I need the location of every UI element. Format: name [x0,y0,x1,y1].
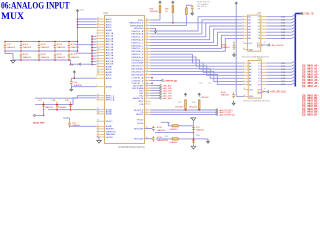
svg-text:REFSEL: REFSEL [106,129,115,131]
svg-text:TEST: TEST [138,101,144,103]
svg-text:SER/BYTE: SER/BYTE [132,98,143,100]
svg-text:PAR/SER: PAR/SER [106,133,116,136]
svg-text:19: 19 [264,42,266,44]
svg-text:7: 7 [97,40,98,42]
svg-text:10KLB10: 10KLB10 [201,97,209,99]
svg-text:6: 6 [243,74,244,76]
svg-text:19: 19 [264,89,266,91]
svg-text:REGCAP: REGCAP [134,127,144,130]
svg-text:19: 19 [97,73,99,75]
svg-text:10KLB10: 10KLB10 [150,11,159,13]
svg-text:+A00_RK(LB): +A00_RK(LB) [270,44,283,47]
svg-text:37: 37 [97,17,99,19]
svg-text:8: 8 [243,80,244,82]
svg-text:D02: D02 [282,23,285,25]
svg-text:9: 9 [243,83,244,85]
svg-text:1L0: 1L0 [199,83,202,85]
svg-text:GND: GND [248,49,253,51]
svg-text:D10: D10 [282,63,285,65]
svg-text:BC10: BC10 [57,54,63,56]
svg-text:D06: D06 [282,35,285,37]
svg-text:[3]: [3] [302,85,305,88]
svg-text:13: 13 [97,57,99,59]
svg-text:10ALB10: 10ALB10 [41,56,50,59]
svg-text:U08: U08 [103,11,108,15]
svg-text:12: 12 [97,54,99,56]
svg-text:24: 24 [146,56,148,58]
svg-text:2: 2 [243,15,244,17]
svg-text:10ALB10: 10ALB10 [157,129,166,132]
svg-text:BC06: BC06 [57,44,63,46]
svg-text:AVDD: AVDD [106,26,112,29]
svg-text:DB9/SDA_E: DB9/SDA_E [131,56,144,59]
svg-text:10: 10 [243,95,245,97]
svg-text:GND: GND [249,96,254,98]
svg-text:AVDD: AVDD [106,68,112,71]
svg-text:10KLB10: 10KLB10 [175,107,184,109]
svg-text:13: 13 [146,18,148,20]
svg-text:DB4/SCL_C: DB4/SCL_C [131,42,143,44]
svg-text:AGND: AGND [106,29,113,32]
svg-text:15: 15 [97,62,99,64]
svg-text:24: 24 [146,73,148,75]
svg-text:AIN_4A: AIN_4A [106,49,114,52]
svg-text:24: 24 [146,64,148,66]
svg-text:6: 6 [97,37,98,39]
svg-text:9: 9 [146,79,147,81]
svg-text:10: 10 [97,48,99,50]
svg-text:BC05: BC05 [41,44,47,46]
svg-text:12: 12 [146,21,148,23]
svg-text:AIN_3B: AIN_3B [106,46,114,49]
svg-text:STBY: STBY [138,20,144,22]
svg-text:BC06: BC06 [221,44,227,46]
svg-text:4: 4 [97,31,98,33]
svg-text:10ALB10: 10ALB10 [58,106,67,109]
svg-text:DB13/SDAG: DB13/SDAG [131,68,144,71]
svg-text:10ALB/DUM: 10ALB/DUM [157,139,168,142]
svg-text:AIN_1B: AIN_1B [106,35,114,38]
svg-text:SN74LVC541APW(TSSOP20): SN74LVC541APW(TSSOP20) [242,55,269,58]
svg-text:1L0: 1L0 [208,83,211,85]
svg-text:D03: D03 [282,26,285,28]
svg-text:5: 5 [243,25,244,27]
svg-text:7: 7 [243,31,244,33]
svg-text:AVDD: AVDD [106,18,112,21]
svg-text:U07: U07 [257,12,262,15]
svg-text:24: 24 [146,50,148,52]
svg-text:+A00_RK [3,8]: +A00_RK [3,8] [270,91,286,94]
svg-text:REFIN/REFR: REFIN/REFR [130,25,144,27]
svg-text:SN74LVC541APW(TSSOP20): SN74LVC541APW(TSSOP20) [243,99,270,102]
svg-text:VCC: VCC [248,43,253,45]
svg-text:10ALB10: 10ALB10 [71,56,80,59]
svg-text:MUX_B7 -: MUX_B7 - [308,113,320,116]
svg-text:5: 5 [97,34,98,36]
svg-text:D16: D16 [282,81,285,83]
svg-text:MUX_A7 -: MUX_A7 - [308,85,320,88]
svg-text:D13: D13 [282,72,285,74]
svg-text:17: 17 [97,68,99,70]
svg-text:11: 11 [97,51,99,53]
svg-text:3: 3 [243,65,244,67]
svg-text:42: 42 [97,98,99,100]
svg-text:DB10/SCLF: DB10/SCLF [132,60,144,62]
svg-text:BC04: BC04 [23,44,29,46]
svg-text:AIN_6A: AIN_6A [106,60,114,63]
svg-text:MUX: MUX [1,11,24,22]
svg-text:24: 24 [146,32,148,34]
svg-text:34: 34 [97,130,99,132]
svg-text:U09: U09 [257,58,262,61]
svg-text:AGND: AGND [106,65,113,68]
svg-text:+5LA: +5LA [69,63,75,66]
svg-text:DB15/SDAH: DB15/SDAH [131,73,144,76]
svg-text:DB12/SCLG: DB12/SCLG [131,66,143,68]
svg-text:AIN_5A: AIN_5A [106,54,114,57]
svg-text:AVDD: AVDD [106,23,112,26]
svg-text:10ALB10: 10ALB10 [71,46,80,49]
svg-text:DB6/SCL_D: DB6/SCL_D [131,48,143,50]
svg-text:24: 24 [146,47,148,49]
svg-text:DB7/SDA_D: DB7/SDA_D [131,50,144,53]
svg-text:REFIO: REFIO [106,121,113,123]
svg-text:+VDB_YB: +VDB_YB [303,14,314,16]
svg-text:D07: D07 [282,38,285,40]
svg-text:D15: D15 [282,78,285,80]
svg-text:6: 6 [243,28,244,30]
svg-text:D/B: D/B [140,104,144,106]
svg-text:5: 5 [243,71,244,73]
svg-text:4: 4 [243,68,244,70]
svg-text:10KLB10: 10KLB10 [189,107,198,109]
svg-text:D01: D01 [282,20,285,22]
svg-text:24: 24 [146,44,148,46]
svg-text:+A00_RESET [4]: +A00_RESET [4] [219,114,235,117]
svg-text:24: 24 [146,29,148,31]
svg-text:REFGND: REFGND [134,28,144,30]
svg-text:AVDD: AVDD [106,21,112,24]
svg-text:10ALB10: 10ALB10 [169,141,178,144]
svg-text:HVDD: HVDD [137,120,144,122]
svg-text:24: 24 [146,67,148,69]
svg-text:38: 38 [97,20,99,22]
svg-text:8: 8 [97,43,98,45]
svg-text:24: 24 [146,58,148,60]
svg-text:47: 47 [146,97,148,99]
svg-text:RESET: RESET [136,114,144,116]
svg-text:DB0/SCL_A: DB0/SCL_A [132,30,144,33]
svg-text:10ALB10: 10ALB10 [57,46,66,49]
svg-text:BC09: BC09 [41,54,47,56]
svg-text:+A00_SER: +A00_SER [162,97,172,100]
svg-text:20: 20 [243,88,245,90]
svg-text:BC08: BC08 [23,54,29,56]
svg-text:24: 24 [146,53,148,55]
svg-text:35: 35 [97,133,99,135]
svg-text:6: 6 [146,113,147,115]
svg-text:AGND: AGND [106,125,113,128]
svg-text:AIN_2A: AIN_2A [106,37,114,40]
svg-text:HVSS: HVSS [137,123,143,125]
svg-text:24: 24 [146,61,148,63]
svg-text:24: 24 [146,38,148,40]
svg-text:11: 11 [146,24,148,26]
svg-text:BC96: BC96 [221,92,227,94]
svg-text:REFC_A: REFC_A [106,99,115,102]
svg-text:VCC: VCC [249,89,254,91]
svg-text:4: 4 [146,102,147,104]
svg-text:46: 46 [97,120,99,122]
svg-text:10ALB10: 10ALB10 [7,46,16,49]
svg-text:4: 4 [243,21,244,23]
svg-text:R62: R62 [165,136,168,138]
svg-text:ADS8588SIPM(LQFP64): ADS8588SIPM(LQFP64) [118,146,145,149]
svg-text:DB11/SDAF: DB11/SDAF [132,62,144,65]
svg-text:10ALB10: 10ALB10 [41,46,50,49]
svg-text:WR/BYTE: WR/BYTE [106,131,117,133]
svg-text:10ALB10: 10ALB10 [23,56,32,59]
svg-text:D12: D12 [282,69,285,71]
svg-text:20: 20 [243,42,245,44]
svg-text:14: 14 [97,59,99,61]
svg-text:9: 9 [97,45,98,47]
svg-text:CONVST_B: CONVST_B [132,80,144,82]
svg-text:D00: D00 [282,16,285,18]
svg-text:39: 39 [97,23,99,25]
svg-text:10ALB10: 10ALB10 [221,94,230,97]
svg-text:CONVST_A: CONVST_A [132,77,144,80]
svg-text:AVDD: AVDD [106,77,112,80]
svg-text:[3]: [3] [302,113,305,116]
svg-text:AIN_2B: AIN_2B [106,40,114,43]
svg-text:AVDD: AVDD [106,74,112,77]
svg-text:9: 9 [243,37,244,39]
svg-text:AIN_3A: AIN_3A [106,43,114,46]
svg-text:10ALB10: 10ALB10 [45,106,54,109]
svg-text:40: 40 [97,26,99,28]
svg-text:AIN_6B: AIN_6B [106,63,114,66]
svg-text:D05: D05 [282,32,285,34]
svg-text:+5LA: +5LA [79,9,84,12]
svg-text:14: 14 [146,27,148,29]
svg-text:RANGE/RCLK: RANGE/RCLK [129,22,144,25]
svg-text:BC80: BC80 [157,127,163,129]
svg-text:AGND: AGND [106,86,113,89]
svg-text:CONVST [4]: CONVST [4] [164,79,177,82]
svg-text:AGND: AGND [106,71,113,74]
svg-text:DB15B: DB15B [106,137,113,139]
svg-text:2: 2 [243,62,244,64]
svg-text:[8] A0_RET: [8] A0_RET [33,121,45,124]
svg-text:10ALB10: 10ALB10 [169,128,178,131]
svg-text:10: 10 [243,48,245,50]
svg-text:10ALB10: 10ALB10 [196,129,205,132]
svg-text:AIN_1A: AIN_1A [106,32,114,35]
svg-text:DB14/SCLH: DB14/SCLH [131,71,143,73]
svg-text:DB3/SDA_B: DB3/SDA_B [131,39,144,42]
svg-text:18: 18 [97,70,99,72]
svg-text:10ALB10: 10ALB10 [221,46,230,49]
svg-text:DB1/SDA_A: DB1/SDA_A [131,33,144,36]
svg-text:D17: D17 [282,84,285,86]
svg-text:7: 7 [243,77,244,79]
svg-text:1%: 1% [165,11,168,13]
svg-text:24: 24 [146,41,148,43]
svg-text:D11: D11 [282,66,285,68]
svg-text:33: 33 [97,127,99,129]
svg-text:DB8/SCL_E: DB8/SCL_E [132,54,144,56]
svg-text:8: 8 [243,34,244,36]
svg-text:DB5/SDA_C: DB5/SDA_C [131,44,144,47]
svg-text:8: 8 [146,76,147,78]
svg-text:AGND: AGND [106,113,113,116]
svg-text:5: 5 [146,100,147,102]
svg-text:10ALB10: 10ALB10 [23,46,32,49]
svg-text:DB2/SCL_B: DB2/SCL_B [132,37,144,39]
svg-text:AIN_4B: AIN_4B [106,51,114,54]
svg-text:45: 45 [97,112,99,114]
svg-text:24: 24 [146,35,148,37]
svg-text:3: 3 [97,29,98,31]
svg-text:R61: R61 [167,122,170,124]
svg-text:24: 24 [146,70,148,72]
svg-text:3: 3 [243,18,244,20]
svg-text:AIN_5B: AIN_5B [106,57,114,60]
svg-text:REGCAP: REGCAP [134,138,144,141]
svg-text:10ALB10: 10ALB10 [57,56,66,59]
